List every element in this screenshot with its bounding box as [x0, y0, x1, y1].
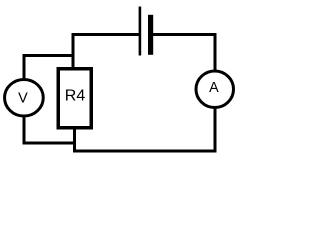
- battery B1 long thin plate: [139, 7, 142, 56]
- battery B1 short thick plate: [148, 15, 153, 55]
- svg-text:R4: R4: [65, 88, 86, 105]
- wire: voltmeter top branch: [24, 56, 75, 80]
- svg-text:A: A: [209, 80, 219, 96]
- wire: right side from battery negative plate down to ammeter top: [153, 35, 215, 74]
- voltmeter V1 circle: [5, 80, 44, 117]
- wire: top-left from battery positive plate to resistor R4 top: [73, 35, 139, 70]
- wire: resistor R4 bottom down and bottom rail to ammeter: [75, 106, 216, 151]
- svg-text:V: V: [18, 90, 28, 106]
- wire: voltmeter bottom branch: [24, 117, 75, 144]
- ammeter A1 circle: [196, 71, 234, 108]
- resistor R4 body: [58, 69, 91, 128]
